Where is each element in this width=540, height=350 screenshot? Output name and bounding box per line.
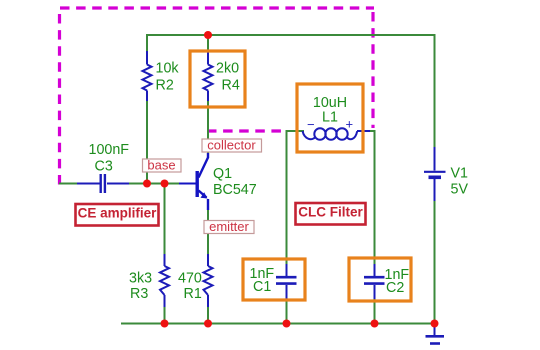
svg-text:emitter: emitter	[209, 219, 249, 234]
wire L1 right to C2 column	[369, 130, 375, 265]
svg-text:R2: R2	[156, 78, 174, 94]
junction node R3 bottom	[161, 320, 169, 328]
svg-text:CLC Filter: CLC Filter	[298, 205, 363, 220]
svg-text:collector: collector	[207, 138, 256, 153]
svg-text:base: base	[147, 158, 175, 173]
junction node base-R2	[143, 180, 151, 188]
svg-text:L1: L1	[322, 110, 338, 126]
inductor L1	[303, 128, 371, 139]
label CE amplifier	[76, 204, 159, 226]
resistor R1	[204, 254, 213, 307]
highlight box around R4	[190, 51, 245, 107]
wire R3 top	[164, 183, 166, 255]
label base	[143, 158, 182, 173]
svg-text:C3: C3	[95, 159, 113, 175]
svg-text:10k: 10k	[156, 61, 180, 77]
junction node at top rail	[204, 31, 212, 39]
svg-text:−: −	[307, 117, 315, 132]
wire battery column bottom	[434, 200, 436, 324]
wire battery column top	[434, 34, 436, 148]
svg-text:5V: 5V	[451, 182, 469, 198]
svg-text:BC547: BC547	[213, 182, 257, 198]
svg-text:470: 470	[178, 271, 202, 287]
capacitor C2	[364, 264, 385, 299]
wire base left segment	[59, 183, 77, 185]
wire R4 top lead	[207, 34, 209, 52]
wire C1 bottom	[286, 298, 288, 324]
svg-text:100nF: 100nF	[89, 142, 130, 158]
wire bottom ground rail	[121, 323, 435, 325]
wire top supply rail	[147, 34, 435, 36]
wire filter input horizontal	[287, 130, 305, 132]
resistor R4	[204, 51, 213, 101]
wire emitter to R1	[207, 209, 209, 255]
svg-text:+: +	[346, 117, 354, 132]
svg-text:C1: C1	[253, 279, 271, 295]
svg-text:R3: R3	[130, 286, 148, 302]
label collector	[202, 138, 262, 153]
junction node C2 bottom	[371, 320, 379, 328]
wire C1 column	[286, 130, 288, 265]
svg-text:2k0: 2k0	[216, 61, 239, 77]
svg-text:3k3: 3k3	[129, 271, 152, 287]
wire R2 top lead	[146, 34, 148, 52]
ground	[426, 324, 445, 344]
wire R3 bottom	[164, 306, 166, 324]
wire collector	[207, 100, 209, 157]
highlight box around C1	[243, 259, 305, 300]
svg-text:R1: R1	[184, 286, 202, 302]
wire R2 bottom to base node	[146, 100, 148, 184]
svg-text:V1: V1	[451, 166, 469, 182]
highlight box around L1	[297, 84, 363, 152]
svg-text:C2: C2	[386, 280, 404, 296]
wire base mid segment	[128, 183, 179, 185]
dashed annotation box right edge	[371, 12, 374, 128]
svg-text:R4: R4	[222, 78, 240, 94]
wire C2 bottom	[374, 298, 376, 324]
highlight box around C2	[349, 258, 411, 301]
wire R1 bottom	[207, 306, 209, 324]
dashed annotation box bottom-right edge	[207, 129, 283, 132]
junction node ground	[431, 320, 439, 328]
junction node R1 bottom	[204, 320, 212, 328]
label emitter	[204, 219, 254, 234]
svg-text:CE amplifier: CE amplifier	[78, 206, 158, 221]
resistor R3	[160, 254, 169, 307]
capacitor C3	[77, 174, 129, 193]
label CLC Filter	[296, 203, 366, 225]
transistor Q1	[179, 153, 208, 210]
dashed annotation box left edge	[58, 14, 61, 185]
svg-text:Q1: Q1	[213, 166, 232, 182]
junction node base-R3	[161, 180, 169, 188]
junction node C1 bottom	[283, 320, 291, 328]
capacitor C1	[276, 264, 297, 299]
resistor R2	[143, 51, 152, 101]
dashed annotation box (CE amplifier region) top edge	[60, 6, 374, 9]
battery V1	[424, 147, 446, 201]
